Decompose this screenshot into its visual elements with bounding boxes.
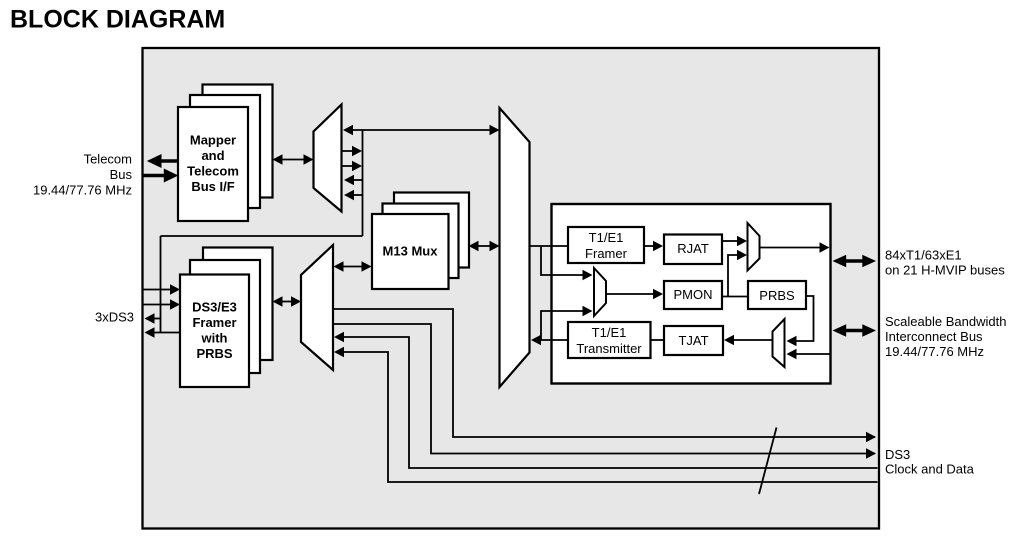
svg-text:Telecom: Telecom <box>187 164 239 179</box>
wire: U2 in arrow 2 <box>344 190 363 200</box>
mux M3 (output mux to H-MVIP) <box>748 223 760 271</box>
svg-text:DS3/E3: DS3/E3 <box>192 300 237 315</box>
block: TJAT <box>664 326 723 355</box>
thick arrow: SBI bus (double) <box>833 324 877 337</box>
label: DS3 Clock and Data <box>885 447 975 477</box>
wire: TJAT to transmitter <box>651 339 665 341</box>
M13 stack middle page <box>383 204 459 279</box>
wire: DS3 line out A (to right edge arrow) <box>333 309 875 437</box>
wire: output mux to right edge arrow <box>760 247 821 249</box>
svg-text:BLOCK DIAGRAM: BLOCK DIAGRAM <box>10 6 225 34</box>
DS3 framer stack middle page <box>190 260 260 373</box>
wire: DS3 framer to mux U4 double arrow <box>273 296 302 306</box>
svg-text:Bus I/F: Bus I/F <box>191 179 234 194</box>
svg-text:Framer: Framer <box>585 246 628 261</box>
wire: DS3 line out B (to right edge arrow) <box>333 324 875 454</box>
wire: U2 out arrow 1 <box>342 146 363 156</box>
svg-text:PRBS: PRBS <box>759 288 795 303</box>
mux U2 (telecom bus side trapezoid) <box>314 105 342 212</box>
thick arrow: telecom bus out (left) <box>147 154 178 168</box>
svg-text:Clock and Data: Clock and Data <box>885 462 975 477</box>
mapper stack back page <box>203 85 273 198</box>
block: PMON <box>664 281 722 309</box>
wire: vertical from trapezoid U2 arrows down to mid bus <box>362 130 364 236</box>
wire: DS3 line in D (from right edge) <box>344 352 878 482</box>
block: PRBS <box>748 281 806 309</box>
svg-text:PMON: PMON <box>674 287 713 302</box>
wire: RJAT to output mux input 1 <box>722 240 738 242</box>
svg-text:DS3: DS3 <box>885 447 910 462</box>
wire: DS3 line in C (from right edge) <box>344 337 878 468</box>
mux M2 (PMON input mux) <box>594 268 606 316</box>
block: T1/E1 Transmitter <box>568 322 651 358</box>
wire: DS3 output arrow 2 <box>145 327 181 337</box>
wire: U2 out arrow 2 <box>342 161 363 171</box>
wire: U3 to T1/E1 framer <box>530 245 569 247</box>
wire: U2 in arrow 1 <box>344 175 363 185</box>
svg-text:3xDS3: 3xDS3 <box>95 310 134 325</box>
block: M13 Mux <box>372 214 449 289</box>
svg-text:M13 Mux: M13 Mux <box>383 244 439 259</box>
svg-text:Framer: Framer <box>192 315 236 330</box>
wire: vertical left feed down to DS3 output arrows <box>160 236 162 333</box>
wire: framer to RJAT arrow <box>644 245 654 247</box>
svg-text:Scaleable Bandwidth: Scaleable Bandwidth <box>885 314 1006 329</box>
label: 84xT1/63xE1 on 21 H-MVIP buses <box>885 248 1005 278</box>
wire: PMON to PRBS <box>722 296 748 298</box>
mux M4 (TJAT source mux) <box>773 319 785 367</box>
label: Telecom Bus 19.44/77.76 MHz <box>33 152 133 198</box>
bus-width slash on DS3 clock/data lines <box>759 428 777 495</box>
block: DS3/E3 Framer with PRBS <box>180 275 249 388</box>
svg-text:Transmitter: Transmitter <box>576 341 642 356</box>
wire: SBI bus into TJAT mux input 2 <box>797 353 831 355</box>
wire: DS3 output arrow 1 <box>145 313 161 323</box>
thick arrow: telecom bus in (right) <box>144 169 179 183</box>
svg-text:RJAT: RJAT <box>677 241 709 256</box>
mux U3 (big center trapezoid) <box>500 108 530 387</box>
svg-text:with: with <box>201 331 228 346</box>
wire: branch up to output mux input 2 <box>728 255 738 297</box>
wire: mux M4 to TJAT arrow <box>734 339 773 341</box>
svg-text:T1/E1: T1/E1 <box>592 325 627 340</box>
svg-text:84xT1/63xE1: 84xT1/63xE1 <box>885 248 962 263</box>
svg-text:19.44/77.76 MHz: 19.44/77.76 MHz <box>33 183 132 198</box>
svg-text:Bus: Bus <box>110 167 133 182</box>
wire: U4 to M13 Mux double arrow <box>334 261 372 271</box>
wire: PRBS loop down to TJAT mux input 1 <box>797 296 814 341</box>
svg-text:PRBS: PRBS <box>196 346 232 361</box>
svg-text:and: and <box>201 148 224 163</box>
svg-text:19.44/77.76 MHz: 19.44/77.76 MHz <box>885 344 984 359</box>
svg-text:Telecom: Telecom <box>84 152 132 167</box>
wire: PMON mux output <box>606 293 654 295</box>
svg-text:on 21 H-MVIP buses: on 21 H-MVIP buses <box>885 263 1005 278</box>
wire: DS3 input arrow 1 <box>144 284 181 294</box>
svg-text:T1/E1: T1/E1 <box>589 230 624 245</box>
thick arrow: H-MVIP bus (double) <box>833 255 877 268</box>
label: Scaleable Bandwidth Interconnect Bus 19.44/77.76 MHz <box>885 314 1006 359</box>
svg-text:Interconnect Bus: Interconnect Bus <box>885 329 983 344</box>
DS3 framer stack back page <box>203 248 273 361</box>
wire: mapper to mux U2 double arrow <box>273 154 314 164</box>
svg-text:TJAT: TJAT <box>678 333 708 348</box>
mapper stack middle page <box>190 95 260 208</box>
wire: transmitter output to U3 with branch to PMON mux input 2 <box>541 339 568 341</box>
wire: branch to PMON mux input 1 <box>541 246 583 275</box>
wire: mid horizontal bus y=236 <box>161 235 363 237</box>
block: T1/E1 Framer <box>568 227 644 263</box>
block: RJAT <box>664 235 722 265</box>
wire: M13 to mux U3 double arrow <box>469 241 500 251</box>
mux U4 (DS3 side trapezoid) <box>301 245 333 370</box>
block: Mapper and Telecom Bus I/F <box>178 107 248 221</box>
M13 stack back page <box>394 193 469 268</box>
wire: DS3 input arrow 2 <box>144 299 181 309</box>
block: T1/E1 group container <box>552 204 831 384</box>
chip outer boundary (gray) <box>143 48 880 529</box>
svg-text:Mapper: Mapper <box>190 133 236 148</box>
wire: long double arrow U2 to U3 <box>343 125 500 135</box>
